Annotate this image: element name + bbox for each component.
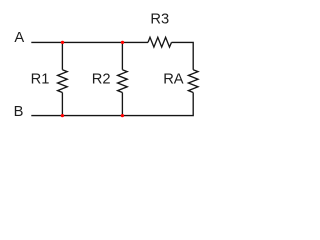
svg-text:R2: R2: [92, 71, 111, 87]
resistor RA (vertical zigzag): [188, 70, 198, 93]
resistor R3 (horizontal zigzag): [148, 37, 172, 47]
svg-text:A: A: [14, 30, 24, 46]
wire top rail from node A to R3: [31, 41, 148, 43]
wire from R3 to top-right corner down to RA: [172, 42, 194, 69]
wire R2 branch bottom stub: [121, 93, 123, 116]
junction dot at top rail / R2: [121, 41, 124, 44]
junction dot at bottom rail / R1: [61, 114, 64, 117]
wire R1 branch top stub: [61, 42, 63, 69]
svg-text:R1: R1: [31, 71, 50, 87]
resistor R1 (vertical zigzag): [58, 70, 68, 93]
junction dot at top rail / R1: [61, 41, 64, 44]
wire R1 branch bottom stub: [61, 93, 63, 116]
svg-text:R3: R3: [150, 11, 169, 27]
junction dot at bottom rail / R2: [121, 114, 124, 117]
resistor R2 (vertical zigzag): [118, 70, 128, 93]
wire R2 branch top stub: [121, 42, 123, 69]
svg-text:B: B: [14, 104, 24, 120]
svg-text:RA: RA: [163, 72, 184, 88]
wire from RA to bottom-right corner and bottom rail to node B: [31, 93, 193, 116]
